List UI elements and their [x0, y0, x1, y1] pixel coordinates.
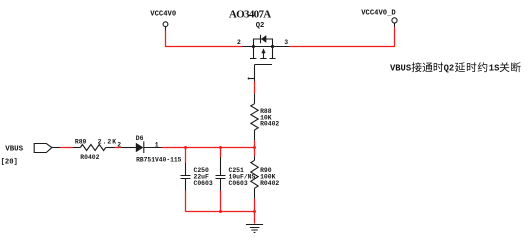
wire R90 to ground [254, 199, 256, 224]
power symbol VCC4V0_D [361, 10, 397, 28]
wire VCC4V0 to Q2 pin 2 [166, 31, 243, 47]
resistor R90 [251, 156, 258, 198]
resistor R89 [73, 145, 115, 151]
ground [246, 225, 263, 233]
svg-text:RB751V40-115: RB751V40-115 [136, 157, 182, 164]
svg-text:AO3407A: AO3407A [229, 9, 271, 21]
junction node C251 [219, 146, 222, 149]
svg-text:Q2: Q2 [444, 64, 455, 74]
wire R88 to node [254, 140, 256, 156]
svg-text:VBUS: VBUS [5, 145, 23, 153]
wire R89 to D6 [115, 147, 122, 149]
svg-text:3: 3 [284, 39, 288, 46]
capacitor C250 value labels [194, 167, 213, 187]
resistor R88 value labels [260, 108, 279, 128]
diode D6 [121, 141, 162, 153]
capacitor C251 [216, 148, 226, 212]
resistor R90 value labels [260, 167, 279, 187]
svg-text:Q2: Q2 [256, 22, 265, 30]
svg-text:2: 2 [117, 141, 121, 148]
svg-text:D6: D6 [136, 135, 144, 142]
transistor Q2 P-MOSFET symbol [243, 35, 290, 81]
svg-text:VBUS: VBUS [390, 64, 411, 74]
junction node mid-right [253, 146, 256, 149]
svg-text:VCC4V0_D: VCC4V0_D [361, 10, 396, 18]
capacitor C250 [181, 148, 191, 212]
svg-text:VCC4V0: VCC4V0 [150, 11, 176, 19]
svg-text:R0402: R0402 [80, 154, 99, 161]
wire bottom ground net [186, 211, 255, 213]
svg-text:1: 1 [155, 141, 159, 148]
wire VBUS to R89 [60, 147, 72, 149]
resistor R88 [251, 94, 258, 141]
capacitor C251 value labels [229, 167, 256, 187]
svg-text:C0603: C0603 [194, 180, 213, 187]
junction bottom C251 [219, 210, 222, 213]
svg-text:1S: 1S [489, 64, 500, 74]
note text VBUS接通时Q2延时约1S关断 [390, 62, 521, 73]
svg-text:R0402: R0402 [260, 121, 279, 128]
wire Q2 pin 3 to VCC4V0_D [290, 27, 395, 46]
svg-text:R0402: R0402 [260, 180, 279, 187]
svg-text:2: 2 [237, 39, 241, 46]
junction node C250 [184, 146, 187, 149]
svg-text:[20]: [20] [1, 159, 18, 167]
junction bottom right [253, 210, 256, 213]
svg-text:C0603: C0603 [229, 180, 248, 187]
port VBUS [34, 144, 60, 153]
wire Q2 gate down [254, 81, 256, 94]
svg-text:R89: R89 [75, 139, 87, 146]
svg-text:2.2K: 2.2K [98, 139, 117, 146]
wire mid horizontal net [162, 147, 255, 149]
power symbol VCC4V0 [150, 11, 176, 31]
